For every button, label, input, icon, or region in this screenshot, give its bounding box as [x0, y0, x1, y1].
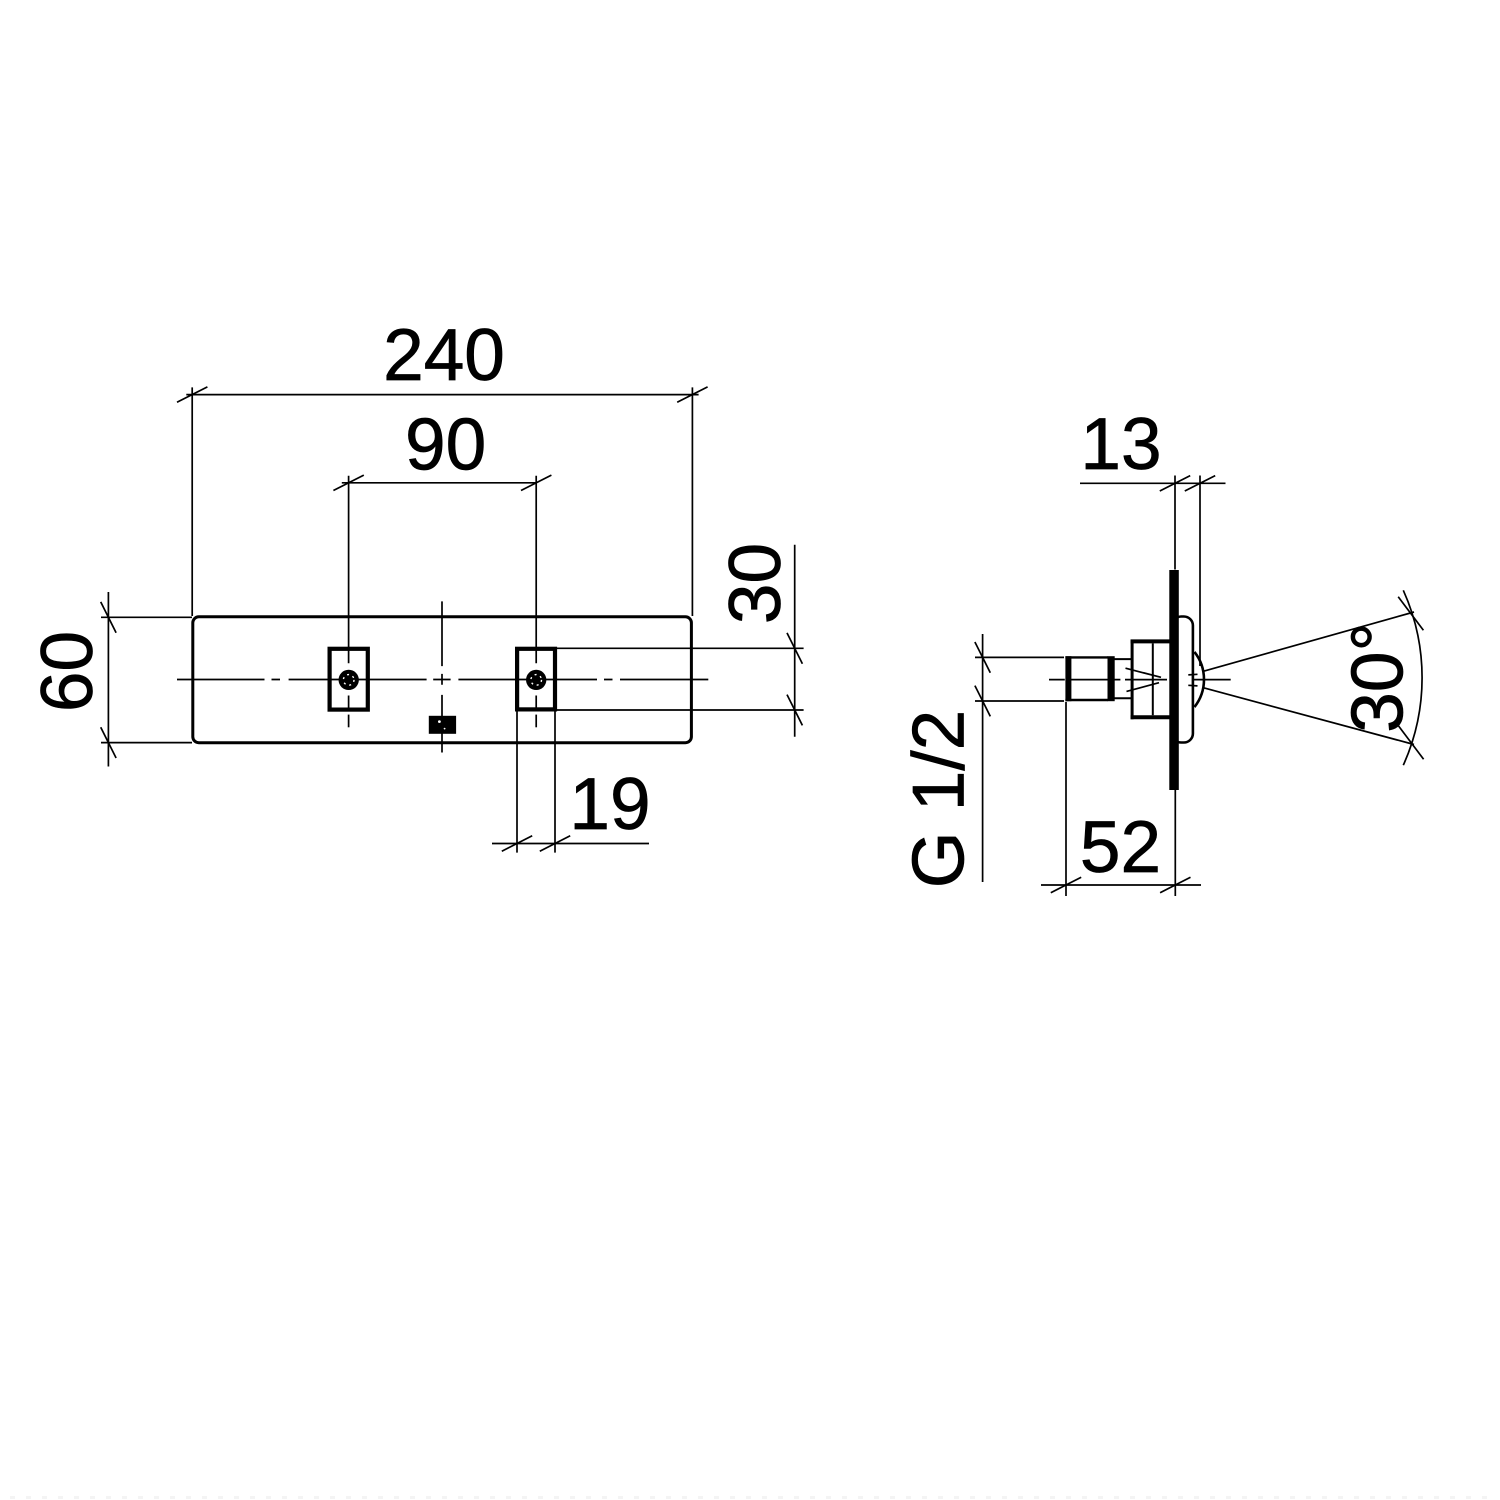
right jet nozzle disc: [526, 670, 546, 690]
dimension G 1/2 extension bottom: [975, 700, 1064, 702]
body hex facet line: [1152, 643, 1154, 715]
extension line 30 bottom: [556, 709, 804, 711]
dimension 19 tick right: [540, 836, 570, 851]
spray cone angle arc: [1403, 590, 1422, 765]
dimension 19 tick left: [502, 836, 532, 851]
dimension 19 line: [492, 843, 649, 845]
dimension 90 tick left: [333, 475, 363, 490]
side view centerline: [1049, 679, 1231, 681]
logo plate (black): [429, 716, 456, 734]
right jet centerline segments: [535, 476, 537, 664]
svg-text:52: 52: [1080, 807, 1161, 888]
dimension 60 tick bottom: [101, 727, 116, 758]
spray cone upper line: [1203, 612, 1414, 671]
dimension G 1/2 tick bottom: [975, 686, 990, 717]
dimension 60 line: [107, 592, 109, 767]
svg-text:60: 60: [27, 631, 108, 712]
nipple left end bar: [1065, 656, 1071, 701]
svg-text:19: 19: [569, 764, 650, 845]
dimension 52 extension left: [1065, 702, 1067, 896]
svg-text:30°: 30°: [1338, 622, 1419, 732]
angle arc tick top: [1398, 597, 1423, 631]
dimension 52 tick left: [1051, 877, 1081, 892]
neck bottom edge: [1115, 697, 1133, 699]
dimension 13 tick right: [1185, 476, 1215, 491]
dimension 60 extension bottom: [101, 742, 192, 744]
dimension 240 extension right: [691, 387, 693, 616]
dimension 60 tick top: [101, 602, 116, 633]
dimension 13 extension left: [1174, 476, 1176, 570]
left jet nozzle disc: [339, 670, 359, 690]
extension line 30 top (from right jet across plate): [556, 647, 804, 649]
dimension G 1/2 line: [982, 634, 984, 882]
dimension 13 tick left: [1160, 476, 1190, 491]
dimension 90 line: [342, 482, 537, 484]
left jet nozzle white ring: [343, 675, 354, 686]
vertical centerline of plate: [441, 601, 443, 752]
dimension 90 tick right: [521, 475, 551, 490]
dimension 13 line: [1080, 482, 1226, 484]
thread diagonal upper: [1126, 668, 1162, 677]
nipple collar bar: [1108, 656, 1115, 701]
dimension 52 tick right: [1160, 877, 1190, 892]
dimension 30 tick top: [787, 633, 802, 664]
faint footer dots: [10, 1496, 1496, 1499]
dimension 240 line: [186, 394, 698, 396]
plate outline 240x60: [193, 617, 692, 743]
dimension 60 extension top: [101, 616, 192, 618]
body bottom edge: [1131, 715, 1170, 719]
svg-text:30: 30: [715, 543, 796, 624]
dome hidden dash lower: [1188, 684, 1197, 687]
dimension G 1/2 extension top: [975, 656, 1064, 658]
dimension 240 extension left: [191, 387, 193, 616]
body top edge: [1131, 639, 1170, 643]
rosette side profile (rounded): [1172, 617, 1193, 743]
svg-text:90: 90: [405, 404, 486, 485]
dome hidden dash upper: [1188, 673, 1197, 676]
dimension 52 line: [1041, 884, 1201, 886]
wall plate bar (black): [1169, 570, 1179, 790]
right jet nozzle white ring: [531, 675, 542, 686]
dimension 240 tick left: [177, 387, 207, 402]
right jet housing rectangle: [517, 649, 555, 710]
dimension 52 extension right: [1174, 790, 1176, 896]
dimension 19 extension right: [554, 712, 556, 853]
left jet centerline segments: [348, 476, 350, 664]
horizontal centerline (front view): [177, 679, 708, 681]
angle arc tick bottom: [1398, 726, 1423, 760]
dimension 19 extension left: [516, 712, 518, 853]
body left edge: [1131, 640, 1134, 720]
dimension 30 tick bottom: [787, 695, 802, 726]
nipple bottom edge: [1065, 699, 1108, 701]
neck top edge: [1115, 658, 1133, 660]
logo white speck: [438, 720, 441, 723]
svg-text:240: 240: [383, 315, 505, 396]
dimension 13 extension right: [1199, 476, 1201, 667]
svg-text:13: 13: [1080, 404, 1161, 485]
spray cone lower line: [1203, 688, 1414, 745]
nipple top edge: [1065, 656, 1108, 658]
ball dome arc: [1194, 652, 1204, 707]
dimension 240 tick right: [677, 387, 707, 402]
thread diagonal lower: [1127, 683, 1160, 692]
dimension G 1/2 tick top: [975, 642, 990, 673]
dimension 30 line: [794, 545, 796, 737]
left jet housing rectangle: [330, 649, 368, 710]
svg-text:G 1/2: G 1/2: [899, 710, 980, 889]
